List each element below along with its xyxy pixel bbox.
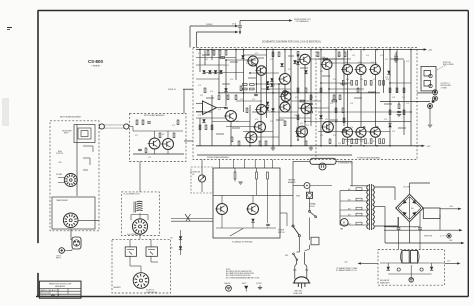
wire bus bend to terminals	[417, 92, 432, 94]
resistor RH10	[250, 88, 255, 90]
zobel capacitor C-Z	[397, 111, 401, 112]
capacitor C102 input board	[138, 149, 142, 150]
resistor R26	[235, 95, 237, 100]
svg-text:4.7K: 4.7K	[376, 127, 379, 129]
junction node J40	[243, 92, 245, 94]
diode CR15	[208, 70, 211, 73]
wire horizontal net H14	[226, 126, 256, 128]
junction node J6	[249, 72, 251, 74]
xlr connector body	[72, 237, 81, 249]
wire vertical net V30	[360, 50, 362, 65]
zener diode CR21	[179, 236, 182, 239]
output transistor Q14	[355, 127, 367, 137]
transistor Q19	[255, 105, 267, 115]
svg-text:4.7K: 4.7K	[338, 143, 341, 145]
resistor R24	[225, 51, 227, 56]
wire stub S9	[222, 83, 230, 85]
diode CR3	[266, 102, 269, 105]
wire horizontal net H5	[226, 59, 256, 61]
svg-text:4.7K: 4.7K	[320, 71, 323, 73]
svg-text:4.7K: 4.7K	[198, 115, 201, 117]
junction node J33	[290, 145, 292, 147]
junction node J1	[199, 49, 201, 51]
svg-text:BLK: BLK	[348, 214, 351, 216]
ground below rail 1	[271, 148, 275, 150]
wire amp box down to fan board 2	[233, 160, 235, 169]
resistor RH3	[300, 100, 305, 102]
resistor R10	[364, 81, 366, 86]
wire right leg to cord	[309, 245, 311, 249]
arrowhead -40V rail	[422, 145, 425, 147]
wire horizontal net H3	[205, 72, 244, 74]
svg-text:4.7K: 4.7K	[210, 91, 213, 93]
thermal breaker circle	[304, 183, 310, 189]
diode CR20	[296, 133, 299, 136]
dotted wire patch link upper	[105, 124, 124, 126]
resistor R5	[338, 52, 340, 57]
capacitor C8	[394, 57, 398, 58]
svg-text:PL-4/P-4 B: PL-4/P-4 B	[146, 290, 154, 292]
power switch S1	[293, 226, 299, 235]
diode CR10	[241, 55, 244, 58]
wire regulator out left	[360, 262, 378, 264]
svg-text:4.7K: 4.7K	[300, 123, 303, 125]
svg-text:2 OHMS: 2 OHMS	[441, 87, 447, 89]
wire vertical net V2	[199, 118, 201, 146]
wire minus dc bus	[385, 242, 462, 244]
svg-text:NOTE:: NOTE:	[226, 269, 231, 271]
wire stub S17	[384, 103, 392, 105]
regulator wire lower rail	[388, 273, 431, 275]
wire drop from upper arrow line	[189, 26, 191, 48]
svg-text:4.7K: 4.7K	[198, 85, 201, 87]
diode CR6	[270, 83, 273, 86]
svg-text:4.7K: 4.7K	[392, 97, 395, 99]
resistor R105 input board	[173, 133, 175, 138]
resistor R8	[351, 81, 353, 86]
resistor R20	[383, 139, 385, 144]
junction node J18	[320, 82, 322, 84]
junction node J24	[363, 49, 365, 51]
resistor R102	[142, 120, 144, 125]
svg-text:LVL: LVL	[192, 174, 195, 176]
interlock box	[311, 237, 319, 245]
resistor R4	[317, 52, 319, 57]
junction node J38	[376, 145, 378, 147]
svg-text:BLK: BLK	[348, 189, 351, 191]
transformer core line a	[369, 184, 371, 230]
wire vertical net V34	[374, 75, 376, 128]
capacitor C9 mid	[224, 107, 228, 108]
wire +40V top rail	[196, 49, 424, 51]
wire stub S20	[216, 133, 224, 135]
resistor R15	[351, 139, 353, 144]
wire stub S4	[288, 55, 294, 57]
svg-text:4.7K: 4.7K	[346, 141, 349, 143]
chassis ground symbol	[226, 285, 232, 291]
title block row line 3	[39, 293, 81, 295]
svg-text:4.7K: 4.7K	[345, 62, 348, 64]
junction node J22	[343, 49, 345, 51]
filter capacitor C1	[397, 228, 401, 229]
svg-text:DRIVER BOARD ASSEMBLY: DRIVER BOARD ASSEMBLY	[207, 156, 230, 159]
dotted wire patch link lower	[105, 127, 124, 129]
wire vertical net V15	[272, 50, 274, 146]
wire input signal to driver	[183, 88, 193, 90]
svg-text:4.7K: 4.7K	[373, 79, 376, 81]
svg-text:4.7K: 4.7K	[384, 119, 387, 121]
ground near output terminal	[428, 125, 432, 127]
resistor RH5	[332, 100, 337, 102]
wire horizontal net H23	[321, 82, 351, 84]
diode CR22	[202, 119, 205, 122]
svg-text:4.7K: 4.7K	[246, 63, 249, 65]
svg-text:4.7K: 4.7K	[402, 97, 405, 99]
svg-text:4.7K: 4.7K	[363, 127, 366, 129]
regulator transistor Q30	[402, 251, 409, 264]
resistor R106 input board	[145, 148, 147, 153]
svg-text:4.7K: 4.7K	[322, 57, 325, 59]
wire patch bracket 3	[83, 169, 88, 171]
capacitor C101	[147, 122, 151, 123]
leader line to volume note	[230, 229, 243, 237]
rotary switch box	[52, 197, 95, 229]
transistor Q8	[295, 126, 308, 137]
transistor Q18	[279, 102, 291, 112]
4-way molex dashed enclosure	[112, 239, 171, 293]
regulator transistor Q31	[410, 251, 417, 264]
wire molex internal 2	[150, 256, 152, 262]
resistor R30	[320, 88, 322, 93]
resistor R104 input board	[159, 133, 161, 138]
wire jumper top to input board	[139, 162, 141, 192]
svg-text:4.7K: 4.7K	[310, 97, 313, 99]
wire stub S13	[296, 127, 304, 129]
transistor Q10	[321, 122, 334, 133]
svg-text:POWER: POWER	[278, 230, 285, 232]
wire horizontal net H8	[256, 83, 285, 85]
arrowhead plus bus	[458, 208, 461, 210]
wire secondary center tap	[375, 206, 385, 208]
capacitor C10	[254, 94, 258, 95]
resistor R32	[339, 95, 341, 100]
wire input board output right	[184, 140, 193, 142]
junction node J12	[284, 49, 286, 51]
transistor Q7	[298, 54, 310, 64]
resistor R3	[297, 52, 299, 57]
junction node J28	[389, 49, 391, 51]
svg-text:OUTPUTS: OUTPUTS	[56, 153, 63, 155]
junction node J39	[389, 145, 391, 147]
interlock switch contacts	[310, 212, 316, 217]
svg-text:INPUT BOARD ASSEMBLY: INPUT BOARD ASSEMBLY	[144, 114, 166, 117]
resistor R39	[335, 108, 337, 113]
wire patch vertical main	[76, 125, 78, 197]
wire jumper box to molex box	[139, 236, 141, 240]
bridge rectifier CR-1 outer diamond	[396, 194, 424, 222]
capacitor C-A at channel A feed	[239, 21, 241, 26]
wire vertical net V19	[290, 50, 292, 146]
resistor R33	[357, 88, 359, 93]
wire bridge top corner up	[409, 183, 411, 194]
junction node J13	[290, 49, 292, 51]
svg-text:15V: 15V	[170, 238, 173, 240]
svg-text:4.7K: 4.7K	[270, 121, 273, 123]
wire horizontal net H15	[243, 131, 273, 133]
svg-text:PATCH BOARD ASSEMBLY: PATCH BOARD ASSEMBLY	[60, 116, 82, 119]
wire vertical net V37	[389, 50, 391, 146]
trimmer potentiometer bias adjust	[282, 90, 287, 95]
wire zobel drop	[398, 102, 400, 105]
wire to decoupling cap	[395, 52, 397, 56]
transformer core line b	[371, 184, 373, 230]
svg-text:4.7K: 4.7K	[406, 61, 409, 63]
junction node J20	[335, 49, 337, 51]
svg-text:4.7K: 4.7K	[295, 97, 298, 99]
wire breaker rail	[293, 185, 304, 187]
wire fuse to interlock	[309, 198, 311, 211]
regulator wire v2	[431, 263, 433, 267]
regulator board dashed enclosure	[378, 250, 444, 286]
convenience outlet body	[310, 158, 336, 164]
wire vertical net V24	[328, 70, 330, 132]
junction node J25	[376, 49, 378, 51]
svg-text:INPUT: INPUT	[242, 283, 246, 285]
wire horizontal net H25	[318, 111, 411, 113]
wire horizontal net H6	[244, 54, 267, 56]
wire vertical net V38	[396, 50, 398, 93]
diode CR11	[387, 71, 390, 74]
wire fan board to mains b	[280, 212, 287, 214]
wire vertical net V23	[320, 50, 322, 146]
resistor R18	[370, 139, 372, 144]
diode CR20	[251, 219, 254, 222]
diode CR1	[266, 81, 269, 84]
wire switch to cord	[298, 237, 300, 253]
line cord plug dome	[294, 277, 309, 283]
junction node J44	[297, 139, 299, 141]
wire vertical net V10	[243, 50, 245, 113]
transformer T1 secondary winding	[373, 185, 375, 229]
output terminal J3	[428, 104, 433, 109]
resistor R45	[259, 141, 261, 146]
svg-text:4.7K: 4.7K	[333, 79, 336, 81]
wire vertical net V7	[225, 60, 227, 106]
wire horizontal net H26	[318, 58, 351, 60]
svg-text:4.7K: 4.7K	[330, 103, 333, 105]
wire stub S5	[300, 67, 308, 69]
ground fan board	[238, 182, 242, 184]
line cord plug base line	[293, 282, 311, 284]
output transistor Q16	[369, 127, 381, 137]
wire outlet left drop	[293, 160, 310, 162]
border frame bottom	[36, 296, 468, 298]
wire vertical net V32	[360, 137, 362, 146]
svg-text:4.7K: 4.7K	[358, 62, 361, 64]
wire molex to fan board rail b	[171, 220, 213, 222]
resistor R19	[379, 139, 381, 144]
junction dot output node	[432, 100, 435, 103]
leader line to speaker note	[437, 65, 446, 70]
resistor R11	[370, 81, 372, 86]
transformer lead label box 2	[356, 198, 362, 201]
resistor R1	[272, 52, 274, 57]
wire input board up to signal line	[183, 89, 185, 113]
wire patch bracket 1	[83, 145, 93, 147]
wire vertical net V13	[260, 76, 262, 146]
bridge diode d	[412, 210, 417, 215]
op-amp U1	[203, 101, 217, 115]
rotary switch SW1 crossover	[64, 174, 77, 187]
transistor Q21 protect	[246, 204, 259, 215]
wire vertical net V17	[284, 50, 286, 74]
wire upper dc bus	[384, 226, 420, 228]
diode CR4	[266, 107, 269, 110]
svg-text:4.7K: 4.7K	[226, 65, 229, 67]
wire mid dc bus with arrow	[384, 229, 460, 231]
svg-text:4.7K: 4.7K	[366, 143, 369, 145]
junction node J42	[260, 145, 262, 147]
resistor R35	[205, 125, 207, 130]
transistor Q3	[244, 132, 257, 143]
wire fan v1	[221, 195, 223, 203]
wire mains left leg down	[296, 261, 298, 265]
svg-text:GND: GND	[285, 255, 288, 257]
wire vertical net V9	[235, 50, 237, 81]
title block border	[39, 281, 81, 298]
connector plug PL-4	[133, 273, 149, 289]
junction node J3	[225, 59, 227, 61]
ground at decoupling cap	[394, 60, 398, 62]
transformer primary stub 4	[340, 209, 369, 211]
wire stub S14	[330, 119, 338, 121]
wire horizontal net H4	[196, 78, 219, 80]
bridge diode a	[402, 200, 407, 205]
wire stub S12	[276, 119, 284, 121]
wire SW1 left stub a	[58, 177, 64, 179]
resistor RH4	[323, 58, 328, 60]
resistor RH7	[243, 84, 248, 86]
wire secondary top to bridge	[375, 186, 395, 188]
wire vertical net V20	[297, 55, 299, 140]
border frame right	[467, 11, 469, 297]
svg-text:DRIVER: DRIVER	[206, 24, 213, 26]
arrowhead regulator out left	[358, 262, 361, 264]
wire horizontal net H13	[212, 121, 250, 123]
wire stub S7	[340, 83, 348, 85]
transformer primary stub 6	[340, 224, 369, 226]
output terminal J2	[433, 96, 438, 101]
wire fan board h2	[216, 227, 276, 229]
arrowhead +40V rail	[424, 48, 427, 50]
wire from driver out of channel A	[240, 20, 290, 22]
junction node J31	[410, 111, 412, 113]
junction node J29	[389, 82, 391, 84]
output transistor Q12	[341, 127, 353, 137]
patch link rect inner	[78, 128, 91, 139]
junction node J35	[335, 145, 337, 147]
svg-text:4.7K: 4.7K	[260, 75, 263, 77]
svg-text:POWER BOARD ASSEMBLY: POWER BOARD ASSEMBLY	[357, 156, 381, 159]
svg-text:4.7K: 4.7K	[406, 103, 409, 105]
svg-text:4.7K: 4.7K	[172, 125, 175, 127]
relay K2 rect	[146, 247, 157, 256]
wire vertical net V27	[347, 50, 349, 65]
output transistor Q11	[341, 65, 353, 75]
svg-text:4.7K: 4.7K	[220, 57, 223, 59]
wire molex top connection a	[129, 239, 131, 247]
wire horizontal net H10	[236, 100, 262, 102]
diode CR21	[224, 88, 227, 91]
transformer primary stub 5	[340, 215, 369, 217]
wire vertical net V28	[347, 75, 349, 128]
svg-text:M: M	[343, 222, 345, 225]
resistor R52	[343, 118, 345, 123]
junction node J19	[328, 88, 330, 90]
resistor R101	[136, 120, 138, 125]
svg-text:4.7K: 4.7K	[352, 55, 355, 57]
resistor R25	[240, 86, 242, 91]
wire primary bus vertical	[339, 191, 341, 225]
wire secondary bottom to bridge	[375, 225, 398, 227]
svg-text:4.7K: 4.7K	[218, 109, 221, 111]
patch jack circle right	[124, 124, 129, 129]
wire horizontal net H21	[305, 121, 336, 123]
filter capacitor C2	[418, 228, 422, 229]
transistor Q9	[321, 60, 333, 70]
relay K1 rect	[125, 247, 136, 256]
wire output bus to speaker	[380, 101, 430, 103]
wire vertical net V22	[310, 50, 312, 127]
wire stub S18	[398, 127, 406, 129]
wire below capacitor coupling	[239, 28, 241, 31]
transformer primary stub 2	[340, 190, 369, 192]
wire stub S3	[258, 57, 264, 59]
svg-text:SWITCH: SWITCH	[309, 206, 315, 208]
wire molex to fan board rail a	[171, 218, 213, 220]
resistor R28	[297, 88, 299, 93]
output terminal J1	[433, 90, 438, 95]
svg-text:PL-16 JUMPER PLUG: PL-16 JUMPER PLUG	[124, 194, 141, 196]
wire input board vertical d	[167, 150, 169, 155]
wire to channel A driver lower	[197, 31, 237, 33]
wire filter cap drop 2	[419, 212, 421, 227]
transistor Q5	[278, 74, 291, 85]
output transistor Q15	[369, 65, 381, 75]
transformer primary stub 3	[340, 200, 369, 202]
diode CR16	[214, 70, 217, 73]
svg-text:INPUT: INPUT	[64, 133, 69, 135]
second switch contact on mains leg	[294, 254, 297, 260]
bridge diode c	[402, 210, 407, 215]
spark gap arrow b	[186, 214, 191, 221]
wire stub S15	[354, 97, 362, 99]
junction node J14	[297, 54, 299, 56]
diode CR9	[304, 70, 307, 73]
svg-text:4.7K: 4.7K	[148, 157, 151, 159]
wire molex top connection b	[150, 239, 152, 247]
diode CR5	[270, 78, 273, 81]
wire stub S1	[202, 54, 210, 56]
wire rail drop g2	[310, 146, 312, 148]
wire input board internal top	[133, 130, 183, 132]
resistor R21	[207, 51, 209, 56]
svg-text:4.7K: 4.7K	[320, 135, 323, 137]
svg-text:4.7K: 4.7K	[338, 55, 341, 57]
svg-text:4.7K: 4.7K	[366, 55, 369, 57]
svg-text:4.7K: 4.7K	[200, 95, 203, 97]
wire vertical net V36	[383, 50, 385, 93]
